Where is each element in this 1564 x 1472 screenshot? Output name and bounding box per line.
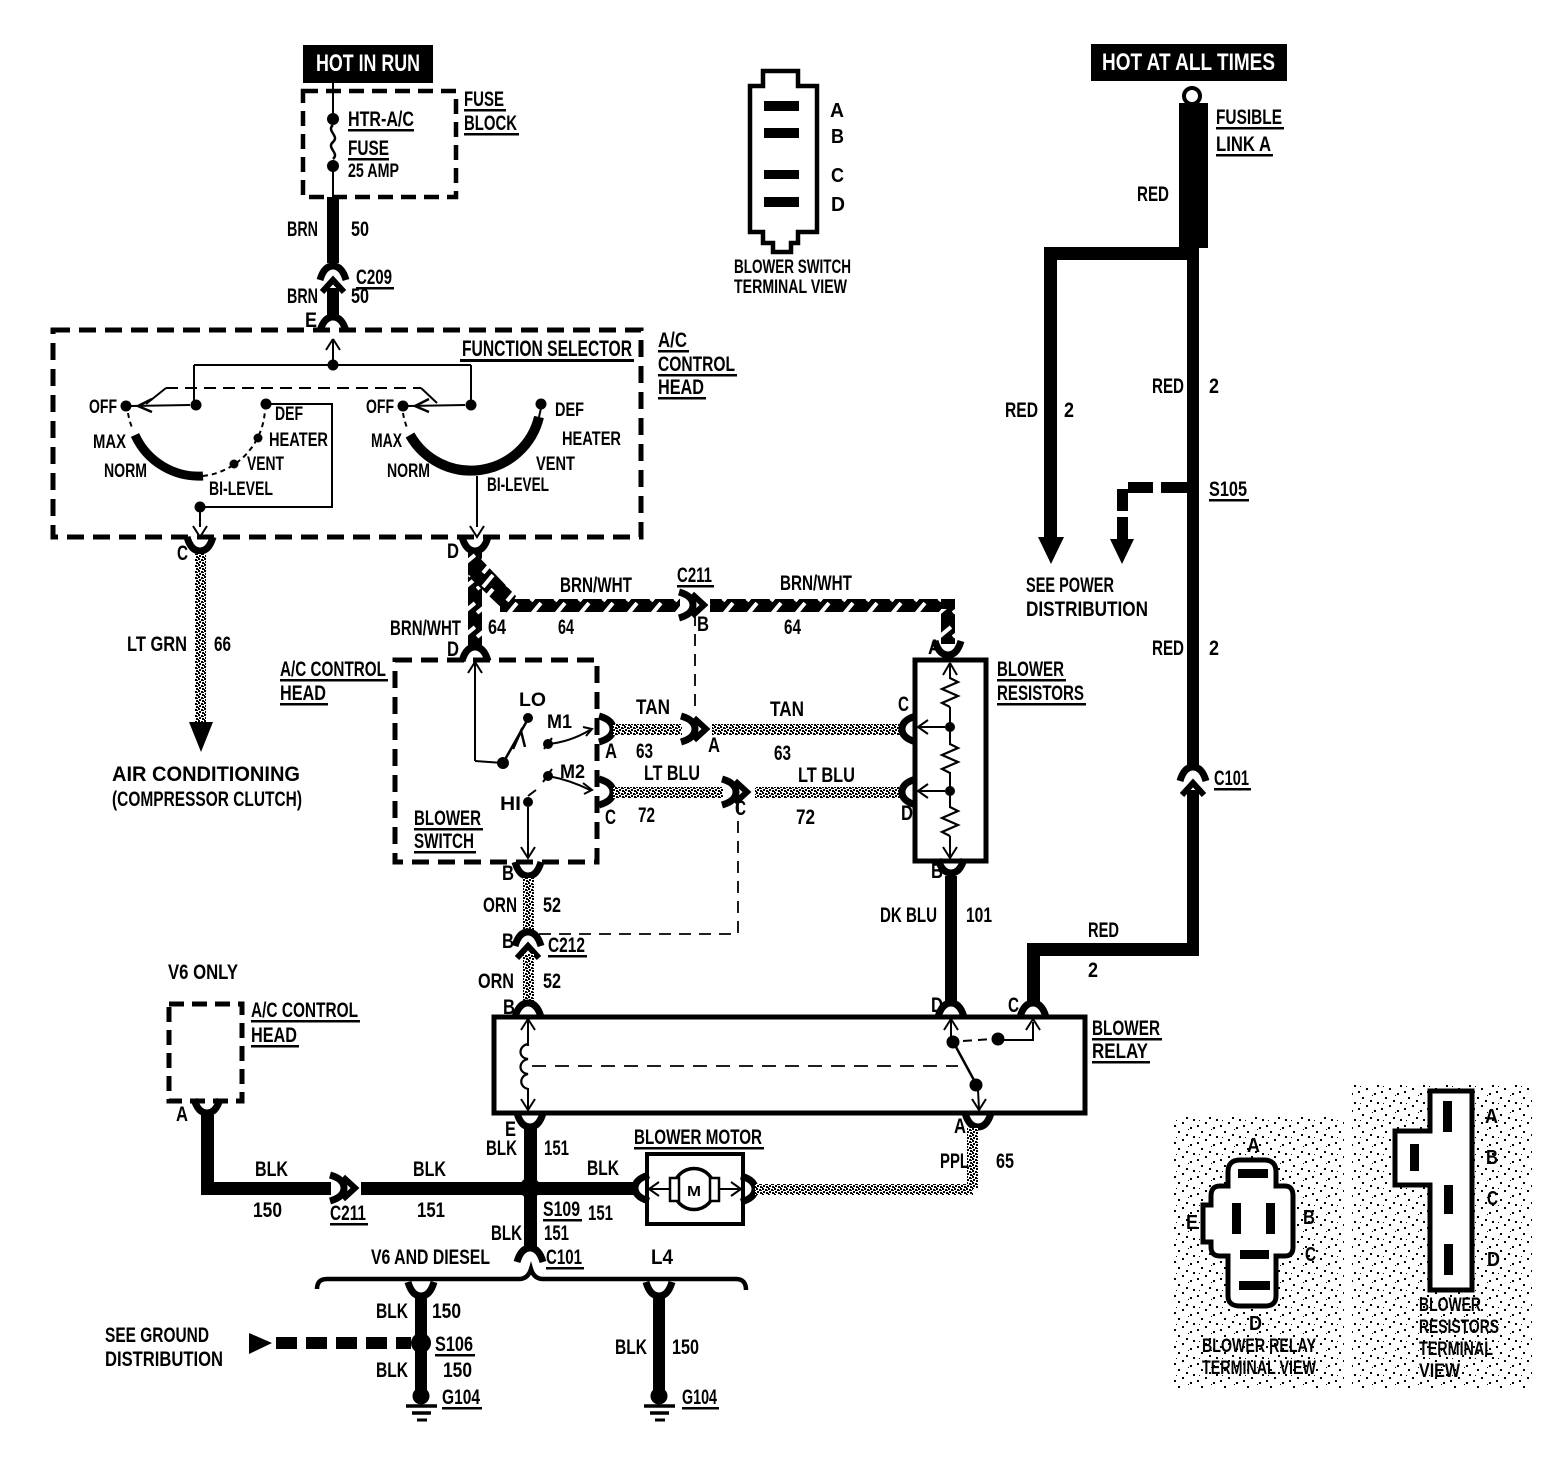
svg-text:(COMPRESSOR CLUTCH): (COMPRESSOR CLUTCH) [112, 788, 302, 811]
svg-text:NORM: NORM [387, 461, 430, 482]
scan noise patch right [1352, 1085, 1532, 1389]
wire LT GRN 66 [127, 554, 231, 752]
left rotary switch [89, 397, 328, 500]
wire RED 2 main vertical [1152, 247, 1219, 768]
svg-text:L4: L4 [651, 1246, 673, 1269]
blower resistors terminal view [1395, 1091, 1500, 1382]
svg-text:LT BLU: LT BLU [644, 762, 700, 785]
svg-text:C: C [831, 165, 844, 187]
wire PPL 65 [741, 1128, 1014, 1202]
svg-text:64: 64 [488, 616, 506, 639]
svg-text:LT BLU: LT BLU [798, 764, 855, 787]
right ground branch wire BLK 150 (L4) [615, 1282, 699, 1390]
scan noise patch left [1174, 1117, 1344, 1389]
svg-text:SWITCH: SWITCH [414, 830, 474, 853]
fuse block box [303, 88, 519, 197]
svg-text:150: 150 [432, 1300, 461, 1323]
connector C101 bottom [371, 1246, 673, 1270]
terminal E blower relay [505, 1113, 543, 1141]
blower switch internals [468, 662, 592, 858]
svg-text:PPL: PPL [940, 1150, 969, 1173]
svg-text:G104: G104 [682, 1386, 717, 1409]
svg-text:BLOCK: BLOCK [464, 112, 517, 135]
svg-text:MAX: MAX [93, 432, 126, 453]
connector C209 [320, 266, 394, 292]
svg-text:FUSE: FUSE [348, 137, 389, 160]
wire BRN 50 lower [287, 285, 369, 316]
svg-text:HEATER: HEATER [562, 429, 621, 450]
svg-text:65: 65 [996, 1150, 1014, 1173]
svg-text:A/C CONTROL: A/C CONTROL [280, 658, 386, 681]
power label HOT AT ALL TIMES [1091, 44, 1287, 81]
svg-text:BLOWER SWITCH: BLOWER SWITCH [734, 257, 851, 278]
svg-text:DK BLU: DK BLU [880, 904, 937, 927]
brace split V6/L4 [317, 1269, 746, 1290]
svg-text:A: A [1485, 1106, 1498, 1128]
svg-text:B: B [1486, 1147, 1498, 1169]
blower resistors box [915, 658, 1086, 861]
svg-text:RED: RED [1005, 399, 1038, 422]
wire BLK 150 from A [201, 1115, 637, 1222]
svg-text:HEAD: HEAD [251, 1024, 297, 1047]
connector C211 on TAN [681, 716, 720, 757]
svg-text:FUSIBLE: FUSIBLE [1216, 106, 1282, 129]
svg-text:150: 150 [672, 1336, 699, 1359]
splice S106 [411, 1333, 475, 1357]
terminal D blower resistors [901, 779, 916, 825]
svg-text:151: 151 [544, 1222, 569, 1245]
wire BLK 151 from relay E [486, 1128, 569, 1180]
svg-text:C101: C101 [1214, 767, 1249, 790]
svg-text:HEAD: HEAD [280, 682, 326, 705]
terminal A of V6 control head [176, 1099, 220, 1126]
terminal D blower relay [931, 994, 964, 1017]
svg-text:ORN: ORN [483, 894, 517, 917]
svg-text:BRN: BRN [287, 285, 318, 308]
svg-text:ORN: ORN [478, 970, 514, 993]
svg-text:A: A [176, 1103, 188, 1126]
svg-text:S106: S106 [435, 1333, 473, 1356]
connector C211 on BLK [330, 1158, 446, 1226]
terminal D of function selector [447, 537, 488, 563]
svg-text:64: 64 [558, 616, 574, 639]
svg-text:63: 63 [774, 742, 791, 765]
svg-text:150: 150 [443, 1359, 472, 1382]
svg-text:RESISTORS: RESISTORS [1419, 1317, 1499, 1338]
note AIR CONDITIONING (COMPRESSOR CLUTCH) [112, 763, 302, 811]
right rotary switch [366, 397, 621, 496]
svg-text:C: C [1305, 1244, 1316, 1266]
svg-text:A: A [708, 734, 720, 757]
svg-text:NORM: NORM [104, 461, 147, 482]
wire RED 2 lower [1152, 637, 1219, 660]
svg-text:TERMINAL: TERMINAL [1419, 1339, 1493, 1360]
svg-text:52: 52 [543, 970, 561, 993]
terminal B blower switch bottom [502, 862, 541, 885]
svg-text:LT GRN: LT GRN [127, 633, 187, 656]
wire RED 2 left branch to power distribution [1005, 247, 1193, 564]
svg-text:151: 151 [588, 1202, 613, 1225]
terminal B blower resistors [931, 859, 964, 883]
blower resistors internals [918, 663, 958, 858]
svg-text:C211: C211 [677, 564, 712, 587]
svg-text:AIR CONDITIONING: AIR CONDITIONING [112, 763, 300, 786]
dashed ground feed wire [249, 1333, 411, 1354]
svg-text:2: 2 [1209, 637, 1219, 660]
svg-text:HTR-A/C: HTR-A/C [348, 108, 414, 131]
svg-text:BI-LEVEL: BI-LEVEL [209, 479, 273, 500]
svg-text:A: A [605, 740, 617, 763]
svg-text:B: B [502, 930, 514, 953]
svg-text:M2: M2 [560, 762, 585, 783]
connector C101 on red wire [1180, 766, 1251, 795]
svg-text:BLK: BLK [376, 1300, 408, 1323]
svg-text:CONTROL: CONTROL [658, 353, 735, 376]
svg-text:HI: HI [500, 794, 521, 815]
svg-text:66: 66 [214, 633, 231, 656]
wire TAN 63 [613, 696, 900, 765]
svg-text:RED: RED [1152, 637, 1184, 660]
svg-text:2: 2 [1064, 399, 1074, 422]
wire E feed inside selector [194, 339, 471, 405]
svg-text:25 AMP: 25 AMP [348, 161, 399, 182]
svg-text:OFF: OFF [89, 397, 117, 418]
terminal A blower relay [954, 1113, 991, 1138]
svg-text:C101: C101 [546, 1246, 582, 1269]
svg-text:C211: C211 [330, 1202, 366, 1225]
svg-text:HOT IN RUN: HOT IN RUN [316, 50, 420, 77]
svg-text:D: D [831, 194, 845, 216]
svg-text:C: C [177, 542, 188, 565]
svg-text:B: B [831, 126, 844, 148]
svg-text:S105: S105 [1209, 478, 1247, 501]
svg-text:BLOWER: BLOWER [997, 658, 1064, 681]
svg-text:OFF: OFF [366, 397, 394, 418]
wire BLK 151 below S109 [491, 1195, 569, 1247]
blower motor [634, 1126, 764, 1224]
svg-text:C: C [1008, 994, 1019, 1017]
svg-text:DEF: DEF [275, 404, 303, 425]
left switch DEF routing [193, 404, 332, 537]
terminal A blower resistors top [928, 636, 961, 659]
svg-text:G104: G104 [442, 1386, 480, 1409]
wire BLK 150 to G104 left [376, 1348, 472, 1390]
svg-text:BLK: BLK [615, 1336, 647, 1359]
svg-text:72: 72 [796, 806, 815, 829]
svg-text:MAX: MAX [371, 431, 402, 452]
note SEE GROUND DISTRIBUTION [105, 1324, 223, 1371]
svg-text:150: 150 [253, 1199, 282, 1222]
svg-text:SEE GROUND: SEE GROUND [105, 1324, 209, 1347]
terminal C blower resistors [898, 693, 916, 742]
wire ORN 52 upper [483, 878, 561, 930]
svg-text:2: 2 [1209, 375, 1219, 398]
svg-text:D: D [447, 540, 459, 563]
note V6 ONLY [168, 961, 238, 984]
terminal C blower relay [1008, 994, 1046, 1017]
svg-text:VENT: VENT [247, 454, 284, 475]
wire RED 2 to blower relay C [1027, 790, 1199, 1003]
fuse HTR-A/C 25A [327, 83, 414, 197]
svg-text:BLOWER: BLOWER [1419, 1295, 1481, 1316]
svg-text:S109: S109 [543, 1198, 580, 1221]
svg-text:DISTRIBUTION: DISTRIBUTION [105, 1348, 223, 1371]
svg-text:BLOWER: BLOWER [414, 807, 481, 830]
svg-text:B: B [697, 613, 709, 636]
connector C212 on ORN [502, 930, 587, 958]
note SEE POWER DISTRIBUTION [1026, 574, 1148, 621]
svg-text:72: 72 [638, 804, 655, 827]
blower relay contacts [944, 1019, 1040, 1110]
svg-text:C: C [605, 806, 616, 829]
blower relay coil [521, 1019, 959, 1110]
svg-text:RED: RED [1137, 183, 1169, 206]
svg-text:63: 63 [636, 740, 653, 763]
svg-text:V6 AND DIESEL: V6 AND DIESEL [371, 1246, 490, 1269]
svg-text:BLK: BLK [486, 1137, 517, 1160]
svg-text:BLOWER: BLOWER [1092, 1017, 1160, 1040]
svg-text:C: C [735, 797, 746, 820]
svg-text:M1: M1 [547, 712, 572, 733]
svg-text:BLOWER MOTOR: BLOWER MOTOR [634, 1126, 762, 1149]
svg-text:BI-LEVEL: BI-LEVEL [487, 475, 549, 496]
svg-text:BRN/WHT: BRN/WHT [390, 617, 461, 640]
svg-text:LINK A: LINK A [1216, 133, 1271, 156]
svg-text:BRN/WHT: BRN/WHT [560, 574, 632, 597]
svg-text:VIEW: VIEW [1419, 1361, 1460, 1382]
wire DK BLU 101 [880, 876, 992, 1003]
wire ORN 52 lower [478, 954, 561, 1004]
connector C212 on LT BLU [536, 779, 755, 934]
svg-text:BLK: BLK [491, 1222, 522, 1245]
terminal C of function selector [177, 537, 213, 565]
terminal A blower switch [599, 716, 617, 763]
svg-text:BRN: BRN [287, 218, 318, 241]
svg-text:BRN/WHT: BRN/WHT [780, 572, 852, 595]
blower switch terminal view (top middle) [734, 71, 851, 298]
ground G104 left [406, 1386, 482, 1420]
blower switch box [395, 660, 597, 862]
svg-text:BLK: BLK [376, 1359, 408, 1382]
wire BRN 50 upper [287, 197, 369, 263]
terminal B blower relay [503, 996, 541, 1019]
blower relay box [494, 1017, 1162, 1113]
svg-text:DISTRIBUTION: DISTRIBUTION [1026, 598, 1148, 621]
svg-text:B: B [502, 862, 514, 885]
svg-text:FUSE: FUSE [464, 88, 504, 111]
svg-text:64: 64 [784, 616, 801, 639]
svg-text:FUNCTION SELECTOR: FUNCTION SELECTOR [462, 336, 632, 361]
fusible link A [1137, 88, 1284, 248]
function selector box (A/C control head) [53, 329, 737, 537]
svg-text:52: 52 [543, 894, 561, 917]
wire BRN/WHT 64 vertical [390, 552, 516, 661]
terminal E of function selector [305, 309, 346, 332]
svg-text:BLK: BLK [587, 1157, 619, 1180]
svg-text:DEF: DEF [555, 400, 584, 421]
svg-text:50: 50 [351, 285, 369, 308]
mechanical link dashed [146, 388, 437, 404]
splice S105 [1110, 478, 1249, 564]
svg-text:A: A [1247, 1135, 1260, 1157]
svg-text:V6 ONLY: V6 ONLY [168, 961, 238, 984]
svg-text:50: 50 [351, 218, 369, 241]
svg-text:A/C CONTROL: A/C CONTROL [251, 999, 358, 1022]
svg-text:HEATER: HEATER [269, 430, 328, 451]
svg-text:VENT: VENT [536, 454, 575, 475]
svg-text:TAN: TAN [636, 696, 670, 719]
svg-text:D: D [1487, 1249, 1500, 1271]
svg-text:101: 101 [966, 904, 992, 927]
blower relay terminal view [1186, 1135, 1316, 1379]
svg-text:C: C [1487, 1188, 1498, 1210]
svg-text:D: D [1249, 1313, 1262, 1335]
svg-text:HOT AT ALL TIMES: HOT AT ALL TIMES [1102, 49, 1275, 76]
svg-text:151: 151 [417, 1199, 445, 1222]
svg-text:BLK: BLK [255, 1158, 288, 1181]
svg-text:RESISTORS: RESISTORS [997, 682, 1084, 705]
svg-text:BLOWER RELAY: BLOWER RELAY [1202, 1336, 1316, 1357]
ground G104 right [644, 1386, 719, 1420]
svg-text:M: M [687, 1183, 701, 1200]
wire BRN/WHT 64 horizontal to resistors [500, 572, 955, 644]
svg-text:A/C: A/C [658, 329, 687, 352]
svg-text:C212: C212 [548, 934, 585, 957]
svg-text:TERMINAL VIEW: TERMINAL VIEW [1202, 1358, 1316, 1379]
splice S109 [520, 1178, 614, 1226]
svg-text:B: B [1303, 1207, 1315, 1229]
wire LT BLU 72 [613, 762, 900, 829]
svg-text:RELAY: RELAY [1092, 1040, 1148, 1063]
right switch output to D [470, 476, 484, 537]
left ground branch wire BLK 150 [376, 1282, 461, 1338]
power label HOT IN RUN [303, 45, 433, 83]
connector C211 on BRN/WHT [677, 564, 714, 712]
svg-text:TERMINAL VIEW: TERMINAL VIEW [734, 277, 847, 298]
svg-text:C: C [898, 693, 909, 716]
terminal C blower switch [599, 779, 616, 829]
svg-text:BLK: BLK [413, 1158, 446, 1181]
svg-text:HEAD: HEAD [658, 376, 704, 399]
svg-text:2: 2 [1088, 959, 1098, 982]
svg-text:RED: RED [1088, 919, 1119, 942]
svg-text:LO: LO [519, 690, 546, 711]
svg-text:151: 151 [544, 1137, 569, 1160]
svg-text:SEE POWER: SEE POWER [1026, 574, 1114, 597]
wire BLK 151 to motor [587, 1157, 649, 1201]
svg-text:E: E [1186, 1212, 1198, 1234]
A/C control head box (V6) [169, 999, 360, 1101]
svg-text:A: A [830, 100, 844, 122]
svg-text:TAN: TAN [770, 698, 804, 721]
svg-text:RED: RED [1152, 375, 1184, 398]
A/C control head label (blower switch) [280, 658, 388, 706]
